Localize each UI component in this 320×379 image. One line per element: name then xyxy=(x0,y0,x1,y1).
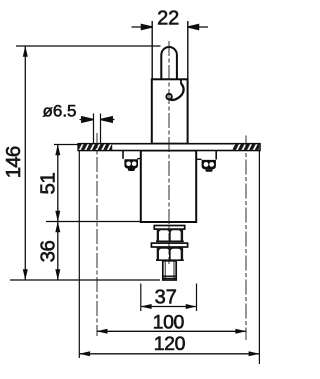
right terminal tail xyxy=(205,169,213,172)
left terminal ledge xyxy=(137,158,141,160)
hex nut 1 facet left xyxy=(159,230,169,241)
threaded stud xyxy=(163,261,176,280)
hook spring contact inside housing xyxy=(166,80,183,100)
dimension 146 top arrow xyxy=(23,46,28,57)
stud thread root line right xyxy=(173,261,175,280)
hex nut 1 facet right xyxy=(171,230,181,241)
wire: extension line right edge of hole o6.5 xyxy=(100,114,102,144)
dimension 51 line xyxy=(57,145,59,222)
dimension o6.5 left arrow xyxy=(80,117,94,123)
svg-text:37: 37 xyxy=(155,286,177,308)
left terminal tail xyxy=(128,169,136,172)
flange hatch left section xyxy=(79,144,113,150)
svg-text:51: 51 xyxy=(36,173,59,195)
main body below flange xyxy=(141,151,196,223)
wire: boundary line between dims 51 and 36 xyxy=(46,221,141,223)
svg-text:120: 120 xyxy=(154,333,186,355)
right terminal hole 1 xyxy=(204,162,209,167)
wire: extension line left wall of housing for dim 22 xyxy=(151,21,153,79)
stud thread root line left xyxy=(164,261,166,280)
stud thread line 1 xyxy=(163,275,176,277)
wire: extension line left for dim 37 xyxy=(140,284,142,312)
washer 2 xyxy=(151,243,187,247)
dimension 51 top arrow xyxy=(55,144,60,155)
left terminal hole 2 xyxy=(132,161,137,166)
dimension 146 line xyxy=(24,46,26,280)
svg-text:22: 22 xyxy=(157,7,179,29)
dimension 120 line xyxy=(80,353,260,355)
dimension 36 top arrow xyxy=(55,221,60,232)
hex nut 1 bottom edge xyxy=(156,240,184,242)
washer 1 below body xyxy=(154,226,184,230)
left terminal body xyxy=(124,159,138,168)
wire: extension line right for dim 37 xyxy=(196,284,198,312)
flange hatch right section xyxy=(233,144,259,150)
wire: extension line flange right end for dim 120 xyxy=(258,151,260,364)
wire: bottom datum line at stud bottom xyxy=(10,279,160,281)
centerline right bolt hole xyxy=(245,136,247,341)
svg-text:100: 100 xyxy=(153,312,185,334)
wire: extension line flange top for dim 51 xyxy=(54,144,79,146)
dimension 37 left arrow xyxy=(141,304,152,309)
hex nut 2 xyxy=(157,247,183,260)
dimension 100 left arrow xyxy=(97,329,108,334)
dimension 36 bottom arrow xyxy=(55,269,60,280)
svg-text:36: 36 xyxy=(36,241,59,263)
right terminal ledge xyxy=(197,158,202,160)
dimension 37 line xyxy=(142,306,196,308)
wire: leader line at top of pin (datum for 146) xyxy=(16,45,161,47)
left terminal stem xyxy=(122,151,124,159)
stud thread line 2 xyxy=(163,277,176,279)
dimension 100 right arrow xyxy=(235,329,246,334)
wire: extension line right wall of housing for dim 22 xyxy=(187,21,189,79)
dimension 120 left arrow xyxy=(79,351,90,356)
right terminal stem xyxy=(215,151,217,160)
pin contact at top xyxy=(161,47,177,79)
hex nut 1 xyxy=(157,229,183,242)
wire: extension line flange left end for dim 120 xyxy=(78,151,80,358)
hex nut 2 bottom edge xyxy=(156,259,184,261)
hex nut 2 facet right xyxy=(171,249,181,261)
centerline left bolt hole xyxy=(96,133,98,336)
right terminal hole 2 xyxy=(209,162,214,167)
centerline main axis xyxy=(168,41,170,264)
svg-text:ø6.5: ø6.5 xyxy=(43,102,77,121)
hex nut 2 facet left xyxy=(159,249,169,261)
dimension o6.5 right arrow xyxy=(100,117,114,123)
dimension 22 left arrow xyxy=(132,25,153,30)
flange plate xyxy=(78,144,260,151)
housing upper body xyxy=(152,79,188,143)
dimension 36 line xyxy=(57,222,59,281)
dimension 146 bottom arrow xyxy=(23,269,28,280)
dimension 22 right arrow xyxy=(188,25,208,30)
dimension 120 right arrow xyxy=(249,351,260,356)
dimension 37 right arrow xyxy=(186,304,197,309)
left terminal hole 1 xyxy=(126,161,131,166)
svg-text:146: 146 xyxy=(2,146,25,178)
right terminal body xyxy=(202,160,216,169)
wire: extension line left edge of hole o6.5 xyxy=(93,114,95,144)
dimension 51 bottom arrow xyxy=(55,211,60,222)
dimension 100 line xyxy=(97,330,246,332)
